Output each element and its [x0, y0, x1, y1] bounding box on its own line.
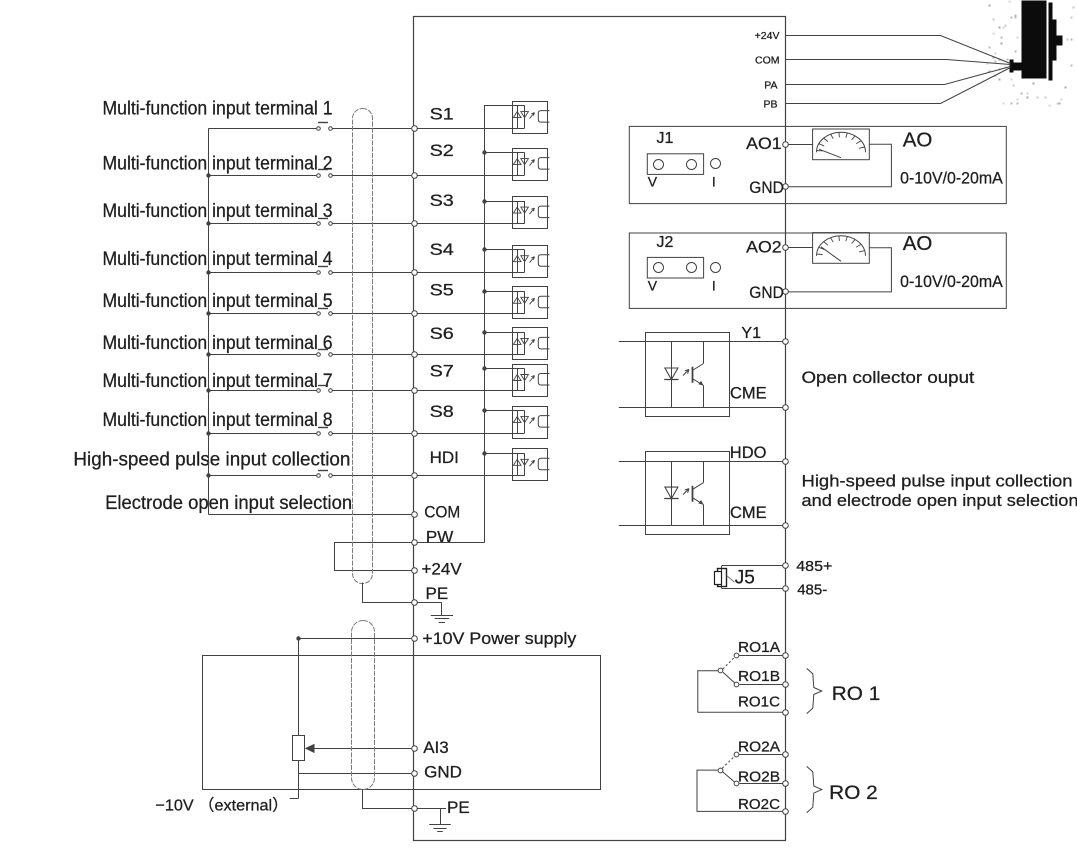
jumper J2: [647, 257, 703, 278]
svg-text:0-10V/0-20mA: 0-10V/0-20mA: [900, 272, 1003, 291]
junction bus/S7: [206, 388, 210, 392]
svg-text:Multi-function input terminal: Multi-function input terminal 5: [103, 291, 333, 312]
svg-text:HDI: HDI: [430, 448, 459, 467]
svg-text:AO1: AO1: [746, 134, 781, 153]
terminal PE: [412, 600, 418, 606]
svg-text:S7: S7: [430, 362, 454, 381]
terminal S6: [412, 352, 418, 358]
svg-text:Multi-function input terminal: Multi-function input terminal 4: [103, 249, 333, 270]
terminal 485-: [783, 586, 789, 592]
input row S7: [103, 362, 550, 397]
jumper wire PW to +24V: [335, 543, 412, 571]
svg-text:CME: CME: [730, 385, 767, 403]
wire HDO: [704, 461, 783, 463]
keypad scan noise: [987, 1, 1075, 107]
terminal PW: [412, 540, 418, 546]
input row S6: [103, 324, 550, 360]
junction opto-line/S5: [482, 289, 486, 293]
brace RO2: [807, 766, 822, 812]
shield 1 drain wire to PE: [363, 583, 412, 603]
optocoupler S7: [513, 365, 548, 397]
terminal AO1: [783, 142, 789, 148]
svg-text:RO2B: RO2B: [738, 769, 780, 785]
optocoupler HDO output: [646, 452, 730, 535]
svg-text:Open collector ouput: Open collector ouput: [802, 368, 975, 387]
terminal S3: [412, 221, 418, 227]
junction opto-line/S2: [482, 150, 486, 154]
svg-text:J1: J1: [657, 130, 674, 147]
svg-text:S1: S1: [430, 105, 454, 124]
wire PW to opto common: [417, 542, 484, 544]
svg-text:AO: AO: [903, 232, 933, 255]
svg-text:HDO: HDO: [730, 444, 767, 462]
wire AO2 loop: [789, 247, 813, 249]
wire GND to pot: [299, 773, 412, 775]
svg-text:Multi-function input terminal: Multi-function input terminal 6: [103, 333, 333, 354]
shield 2 drain wire to PE: [363, 790, 412, 809]
svg-text:COM: COM: [755, 55, 780, 67]
left bus vertical wire: [208, 128, 210, 515]
switch S6: [317, 353, 321, 357]
svg-text:+10V Power supply: +10V Power supply: [422, 629, 577, 648]
switch S3: [317, 222, 321, 226]
optocoupler common line (to PW): [484, 106, 486, 543]
shield cable 2: [352, 621, 375, 790]
input row S2: [103, 141, 550, 181]
input row S3: [103, 191, 550, 229]
terminal S1: [412, 126, 418, 132]
svg-text:PE: PE: [426, 584, 449, 603]
svg-text:V: V: [648, 277, 658, 293]
jumper J1: [647, 154, 703, 175]
svg-text:RO2C: RO2C: [738, 797, 780, 813]
optocoupler S1: [513, 102, 548, 134]
optocoupler S6: [513, 328, 548, 360]
svg-text:−10V （external）: −10V （external）: [155, 797, 288, 815]
shield cable 1: [353, 109, 373, 584]
wire Y1: [704, 341, 783, 343]
wire COM to keypad: [786, 60, 1011, 65]
svg-text:J2: J2: [657, 234, 674, 251]
optocoupler S3: [513, 197, 548, 229]
optocoupler S8: [513, 407, 548, 439]
svg-text:J5: J5: [735, 567, 755, 588]
svg-text:High-speed pulse input collect: High-speed pulse input collection: [73, 450, 350, 471]
keypad body: [1010, 1, 1063, 81]
junction opto-line/HDI: [482, 451, 486, 455]
inverter main box: [414, 17, 786, 841]
relay RO2: [739, 754, 783, 756]
terminal PE (bottom): [412, 806, 418, 812]
terminal COM: [412, 512, 418, 518]
junction opto-line/S8: [482, 408, 486, 412]
svg-text:485-: 485-: [797, 582, 827, 599]
terminal HDO: [783, 459, 789, 465]
junction bus/HDI: [206, 473, 210, 477]
terminal CME: [783, 405, 789, 411]
wire +10V to potentiometer: [299, 638, 412, 640]
junction opto-line/S4: [482, 247, 486, 251]
svg-text:High-speed pulse input collect: High-speed pulse input collection: [802, 471, 1073, 490]
wire CME: [704, 407, 783, 409]
terminal GND (J2): [783, 289, 789, 295]
terminal 485+: [783, 563, 789, 569]
svg-text:PE: PE: [447, 798, 470, 817]
svg-text:RO1C: RO1C: [738, 695, 780, 711]
svg-text:AO2: AO2: [746, 238, 781, 257]
terminal +24V: [412, 568, 418, 574]
svg-text:PW: PW: [426, 527, 453, 546]
terminal S8: [412, 431, 418, 437]
optocoupler S2: [513, 149, 548, 181]
svg-text:GND: GND: [424, 763, 462, 782]
input row S4: [103, 240, 550, 278]
switch S8: [317, 432, 321, 436]
switch HDI: [317, 474, 321, 478]
terminal S4: [412, 270, 418, 276]
junction bus/S4: [206, 270, 210, 274]
svg-text:GND: GND: [749, 178, 784, 197]
potentiometer R: [298, 638, 300, 735]
meter (AO2): [813, 233, 870, 264]
svg-text:PA: PA: [764, 80, 777, 92]
switch S4: [317, 271, 321, 275]
svg-text:PB: PB: [763, 98, 777, 110]
brace RO1: [807, 668, 822, 713]
wire PB to keypad: [786, 68, 1011, 104]
svg-text:RO 1: RO 1: [832, 684, 881, 705]
svg-text:S8: S8: [430, 402, 454, 421]
wire PA to keypad: [786, 67, 1011, 85]
label -10V external: [290, 798, 299, 800]
svg-text:Y1: Y1: [741, 325, 761, 342]
switch S2: [317, 174, 321, 178]
J1 analog output box: [629, 126, 1006, 203]
svg-text:I: I: [712, 174, 716, 190]
input row S8: [103, 402, 550, 439]
svg-text:Multi-function input terminal: Multi-function input terminal 8: [103, 410, 333, 431]
svg-text:AI3: AI3: [423, 738, 449, 757]
svg-text:Electrode open input selection: Electrode open input selection: [105, 493, 352, 514]
input row S5: [103, 281, 550, 319]
terminal +10V: [412, 636, 418, 642]
svg-text:CME: CME: [730, 504, 767, 522]
switch S1: [317, 127, 321, 131]
junction bus/S2: [206, 173, 210, 177]
terminal Y1: [783, 339, 789, 345]
svg-text:RO2A: RO2A: [738, 740, 780, 756]
terminal AI3: [412, 746, 418, 752]
optocoupler S5: [513, 287, 548, 319]
wire wiper to AI3: [315, 748, 412, 750]
svg-text:S4: S4: [430, 240, 454, 259]
junction +10V/pot: [296, 636, 300, 640]
svg-text:GND: GND: [749, 283, 784, 302]
wire CME 2: [704, 525, 783, 527]
pot wiper arrow: [305, 744, 315, 753]
ground symbol (PE bottom): [417, 808, 446, 810]
wire bus to COM: [209, 514, 411, 516]
junction bus/S6: [206, 352, 210, 356]
svg-text:RO1A: RO1A: [738, 640, 780, 656]
svg-text:RO1B: RO1B: [738, 669, 780, 685]
terminal GND (AI): [412, 771, 418, 777]
terminal AO2: [783, 245, 789, 251]
meter (AO1): [813, 129, 870, 160]
junction opto-line/S6: [482, 330, 486, 334]
terminal S2: [412, 173, 418, 179]
wire +24V to keypad: [786, 36, 1011, 64]
terminal HDI: [412, 473, 418, 479]
svg-text:485+: 485+: [796, 558, 832, 575]
svg-text:I: I: [712, 277, 716, 293]
switch S5: [317, 312, 321, 316]
jumper J5: [722, 565, 783, 567]
terminal GND (J1): [783, 184, 789, 190]
svg-text:S3: S3: [430, 191, 454, 210]
svg-text:S5: S5: [430, 281, 454, 300]
ground symbol (PE): [417, 602, 442, 604]
svg-text:and electrode open input selec: and electrode open input selection: [802, 491, 1077, 510]
terminal CME (HDO): [783, 523, 789, 529]
svg-text:RO 2: RO 2: [829, 783, 878, 804]
svg-text:V: V: [648, 174, 658, 190]
svg-text:Multi-function input terminal: Multi-function input terminal 3: [103, 201, 333, 222]
optocoupler Y1 output: [646, 333, 730, 417]
svg-text:Multi-function input terminal: Multi-function input terminal 2: [103, 154, 333, 175]
relay RO1: [739, 655, 783, 657]
terminal S7: [412, 388, 418, 394]
terminal S5: [412, 311, 418, 317]
junction opto-line/S3: [482, 199, 486, 203]
junction bus/S3: [206, 221, 210, 225]
switch S7: [317, 389, 321, 393]
svg-text:+24V: +24V: [755, 30, 780, 42]
input row S1: [103, 99, 550, 134]
svg-text:AO: AO: [903, 128, 933, 151]
svg-text:+24V: +24V: [422, 560, 463, 579]
junction opto-line/S7: [482, 366, 486, 370]
external potentiometer box: [203, 656, 601, 790]
svg-text:Multi-function input terminal: Multi-function input terminal 1: [103, 99, 333, 120]
svg-text:0-10V/0-20mA: 0-10V/0-20mA: [900, 169, 1003, 188]
junction bus/S5: [206, 311, 210, 315]
J2 analog output box: [629, 233, 1006, 308]
svg-text:S6: S6: [430, 324, 454, 343]
input row HDI: [73, 448, 549, 481]
svg-text:COM: COM: [424, 503, 460, 522]
svg-text:S2: S2: [430, 141, 454, 160]
svg-text:Multi-function input terminal: Multi-function input terminal 7: [103, 371, 333, 392]
wire AO1 loop: [789, 144, 813, 146]
optocoupler HDI: [513, 449, 548, 481]
junction bus/S8: [206, 431, 210, 435]
optocoupler S4: [513, 246, 548, 278]
